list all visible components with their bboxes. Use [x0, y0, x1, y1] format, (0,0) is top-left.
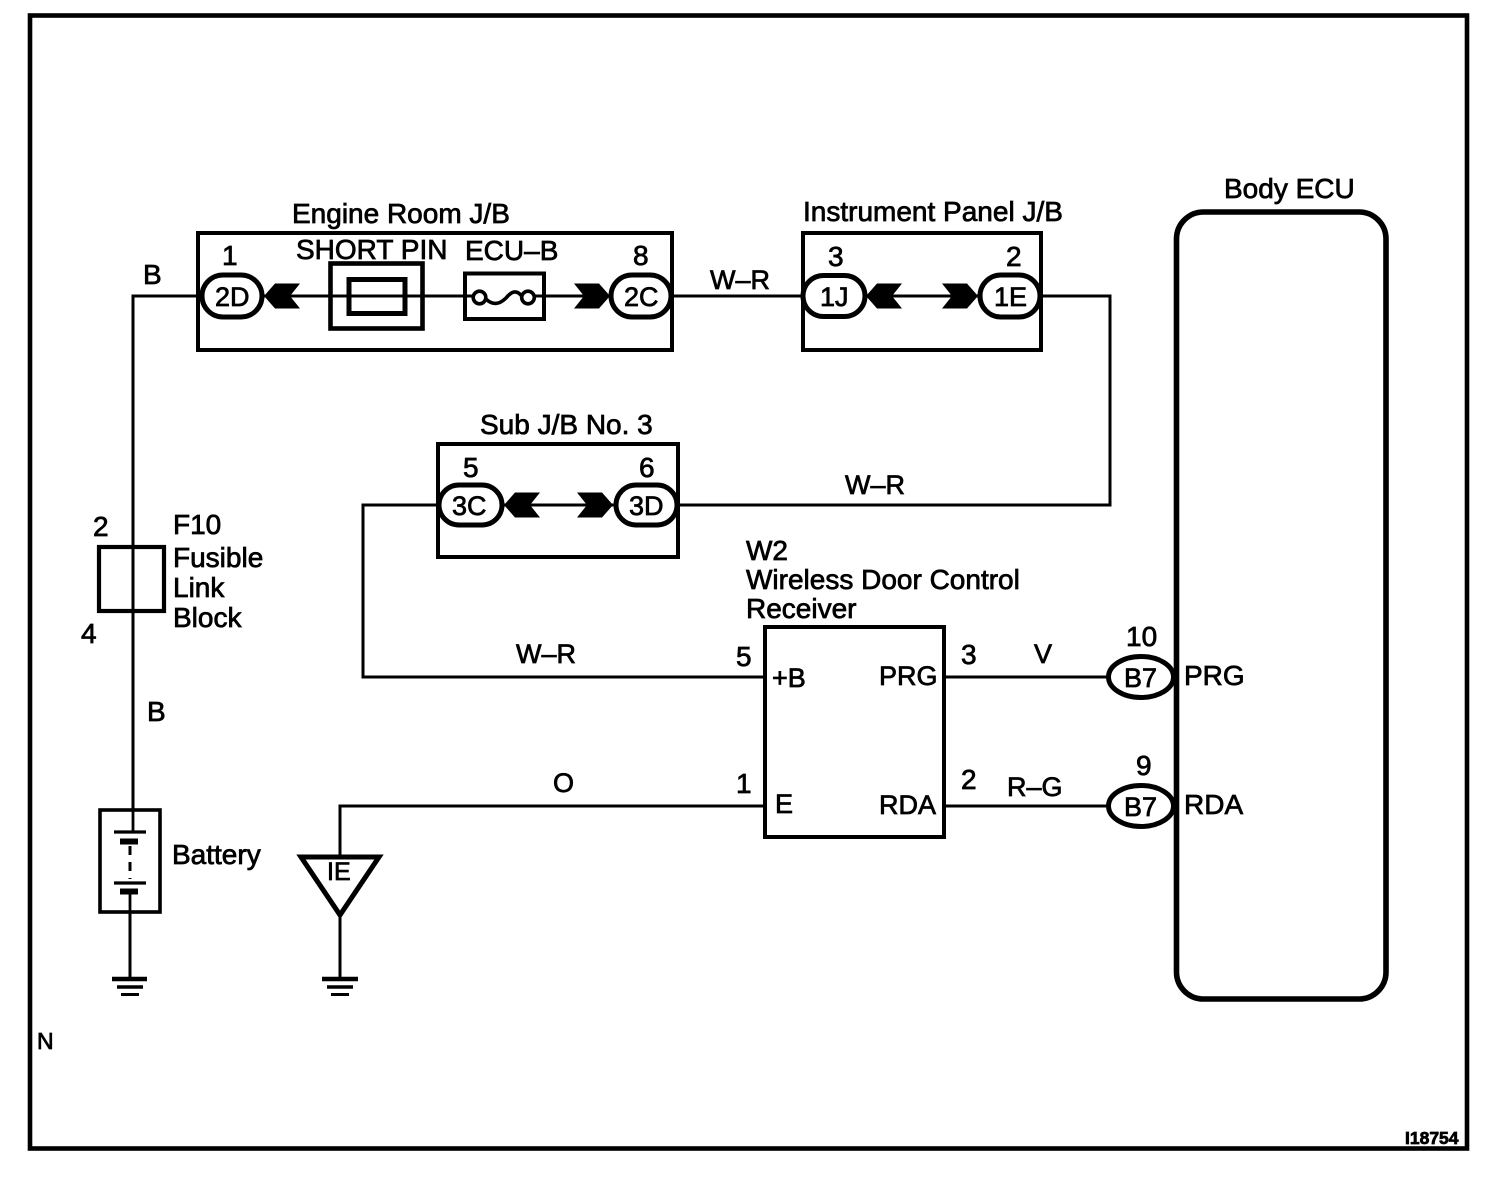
- svg-text:1J: 1J: [820, 282, 849, 312]
- arrow at 3C: [504, 493, 540, 518]
- svg-text:I18754: I18754: [1405, 1128, 1459, 1148]
- svg-text:E: E: [775, 789, 793, 819]
- svg-text:W–R: W–R: [710, 265, 770, 295]
- svg-text:N: N: [37, 1028, 54, 1054]
- fuse ECU-B: [465, 235, 558, 319]
- svg-text:Engine Room J/B: Engine Room J/B: [292, 198, 510, 229]
- connector 1J pin 3: [803, 241, 865, 317]
- svg-text:PRG: PRG: [1184, 660, 1245, 691]
- svg-text:+B: +B: [772, 663, 806, 693]
- junction block Instrument Panel J/B: [803, 196, 1063, 350]
- wire inside Engine Room J/B from 2D to fuse: [262, 295, 474, 298]
- svg-text:1: 1: [736, 768, 752, 799]
- wire inside Sub J/B No. 3 from 3C to 3D: [502, 504, 616, 507]
- svg-text:2C: 2C: [624, 282, 659, 312]
- ground node IE triangle: [301, 857, 379, 915]
- svg-text:5: 5: [463, 452, 479, 483]
- arrow at 3D: [577, 493, 613, 518]
- wire W-R from 3C to W2 +B pin 5: [363, 505, 765, 677]
- ECU Body ECU: [1177, 173, 1387, 999]
- svg-text:2D: 2D: [215, 282, 250, 312]
- wire inside Instrument Panel J/B from 1J to 1E: [865, 295, 980, 298]
- arrow at 1E: [942, 284, 978, 309]
- wire W-R from 1E down to 3D: [677, 296, 1110, 505]
- wire R-G from W2 RDA pin 2 to connector B7 pin 9: [944, 772, 1110, 806]
- arrow at 2D: [264, 284, 300, 309]
- svg-text:3: 3: [961, 639, 977, 670]
- connector 1E pin 2: [980, 241, 1040, 317]
- svg-text:Link: Link: [173, 572, 225, 603]
- connector 3D pin 6: [616, 452, 677, 525]
- svg-text:Receiver: Receiver: [746, 593, 856, 624]
- svg-text:Instrument Panel J/B: Instrument Panel J/B: [803, 196, 1063, 227]
- svg-text:3D: 3D: [629, 491, 664, 521]
- wire battery to ground: [129, 912, 132, 977]
- wire O from ground IE to W2 E pin 1: [340, 768, 765, 857]
- svg-text:RDA: RDA: [1184, 789, 1243, 820]
- connector B7 pin 10 PRG: [1109, 621, 1174, 698]
- short pin SHORT PIN: [296, 234, 447, 329]
- svg-text:B: B: [143, 259, 162, 290]
- svg-text:Fusible: Fusible: [173, 542, 263, 573]
- svg-text:Sub J/B No. 3: Sub J/B No. 3: [480, 409, 653, 440]
- ground below battery: [112, 979, 147, 995]
- battery: [100, 810, 261, 912]
- arrow at 1J: [866, 284, 902, 309]
- svg-text:8: 8: [633, 240, 649, 271]
- connector B7 pin 9 RDA: [1109, 750, 1174, 827]
- wire inside Engine Room J/B from fuse to 2C: [533, 295, 611, 298]
- svg-text:2: 2: [93, 511, 109, 542]
- svg-text:IE: IE: [327, 858, 351, 886]
- svg-text:B7: B7: [1124, 663, 1157, 693]
- svg-text:5: 5: [736, 641, 752, 672]
- fusible link block F10 pins 2 and 4: [81, 509, 263, 649]
- svg-text:3C: 3C: [452, 491, 487, 521]
- svg-text:1E: 1E: [994, 282, 1027, 312]
- svg-text:R–G: R–G: [1007, 772, 1063, 802]
- svg-text:B: B: [147, 696, 166, 727]
- svg-text:W2: W2: [746, 535, 788, 566]
- svg-text:F10: F10: [173, 509, 221, 540]
- wire W-R from 2C to 1J: [671, 265, 804, 296]
- wire V from W2 PRG pin 3 to connector B7 pin 10: [944, 639, 1110, 677]
- svg-text:2: 2: [1006, 241, 1022, 272]
- connector 3C pin 5: [439, 452, 502, 525]
- svg-text:SHORT PIN: SHORT PIN: [296, 234, 447, 265]
- svg-text:2: 2: [961, 764, 977, 795]
- svg-text:Battery: Battery: [172, 839, 261, 870]
- svg-text:1: 1: [222, 240, 238, 271]
- wire IE triangle to ground: [339, 915, 342, 977]
- svg-text:W–R: W–R: [516, 639, 576, 669]
- svg-text:Wireless Door Control: Wireless Door Control: [746, 564, 1020, 595]
- svg-text:W–R: W–R: [845, 470, 905, 500]
- svg-text:3: 3: [828, 241, 844, 272]
- arrow at 2C: [574, 284, 610, 309]
- receiver W2 Wireless Door Control Receiver: [746, 535, 1020, 837]
- svg-text:Body ECU: Body ECU: [1224, 173, 1355, 204]
- svg-text:9: 9: [1136, 750, 1152, 781]
- svg-text:10: 10: [1126, 621, 1157, 652]
- svg-text:ECU–B: ECU–B: [465, 235, 558, 266]
- svg-text:6: 6: [639, 452, 655, 483]
- svg-text:B7: B7: [1124, 792, 1157, 822]
- junction block Engine Room J/B: [198, 198, 672, 350]
- connector 2C pin 8: [611, 240, 671, 317]
- svg-text:PRG: PRG: [879, 661, 938, 691]
- svg-text:V: V: [1034, 639, 1052, 669]
- svg-text:RDA: RDA: [879, 790, 936, 820]
- svg-text:O: O: [553, 768, 574, 798]
- svg-text:Block: Block: [173, 602, 242, 633]
- svg-text:4: 4: [81, 618, 97, 649]
- junction block Sub J/B No. 3: [438, 409, 678, 557]
- wire B from connector 2D down to battery: [133, 259, 202, 810]
- ground below IE triangle: [322, 979, 358, 995]
- connector 2D pin 1: [202, 240, 262, 317]
